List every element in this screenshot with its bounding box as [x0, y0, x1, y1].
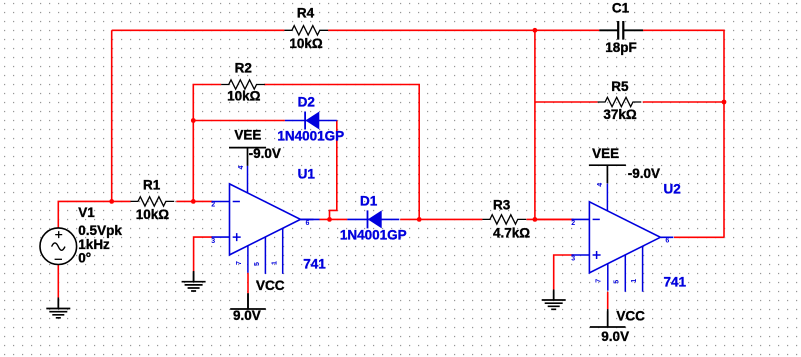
svg-text:R2: R2 — [235, 61, 252, 76]
svg-text:2: 2 — [571, 220, 575, 227]
svg-text:1N4001GP: 1N4001GP — [340, 228, 407, 243]
svg-text:9.0V: 9.0V — [601, 329, 629, 344]
svg-text:5: 5 — [254, 262, 261, 266]
svg-text:4.7kΩ: 4.7kΩ — [493, 225, 530, 240]
svg-text:VEE: VEE — [234, 128, 261, 143]
svg-text:VEE: VEE — [592, 146, 619, 161]
svg-text:D2: D2 — [298, 95, 315, 110]
svg-text:2: 2 — [211, 202, 215, 209]
svg-text:3: 3 — [211, 238, 215, 245]
svg-text:R5: R5 — [611, 79, 629, 94]
svg-text:0°: 0° — [78, 251, 91, 266]
svg-text:10kΩ: 10kΩ — [136, 207, 170, 222]
svg-text:C1: C1 — [612, 1, 630, 16]
svg-text:VCC: VCC — [256, 278, 285, 293]
svg-text:U1: U1 — [298, 167, 316, 182]
svg-text:37kΩ: 37kΩ — [603, 107, 637, 122]
svg-text:6: 6 — [665, 238, 669, 245]
svg-text:-9.0V: -9.0V — [628, 166, 660, 181]
svg-text:1N4001GP: 1N4001GP — [277, 129, 344, 144]
svg-text:7: 7 — [236, 261, 243, 265]
svg-text:5: 5 — [613, 280, 620, 284]
svg-text:4: 4 — [238, 165, 245, 169]
svg-text:0.5Vpk: 0.5Vpk — [78, 223, 122, 238]
svg-text:741: 741 — [303, 257, 326, 272]
svg-text:D1: D1 — [360, 194, 378, 209]
svg-text:7: 7 — [596, 279, 603, 283]
svg-text:1: 1 — [631, 279, 638, 283]
svg-text:18pF: 18pF — [605, 40, 637, 55]
svg-text:6: 6 — [306, 220, 310, 227]
svg-text:10kΩ: 10kΩ — [289, 36, 323, 51]
svg-text:V1: V1 — [78, 205, 95, 220]
svg-text:10kΩ: 10kΩ — [227, 88, 261, 103]
svg-text:741: 741 — [664, 275, 687, 290]
svg-text:1: 1 — [272, 261, 279, 265]
svg-text:U2: U2 — [664, 182, 681, 197]
svg-text:R1: R1 — [143, 178, 161, 193]
svg-text:R4: R4 — [297, 6, 315, 21]
svg-text:-9.0V: -9.0V — [249, 146, 281, 161]
svg-text:VCC: VCC — [616, 308, 645, 323]
svg-text:4: 4 — [597, 183, 604, 187]
svg-text:R3: R3 — [493, 197, 511, 212]
svg-text:3: 3 — [571, 256, 575, 263]
svg-text:9.0V: 9.0V — [233, 308, 261, 323]
